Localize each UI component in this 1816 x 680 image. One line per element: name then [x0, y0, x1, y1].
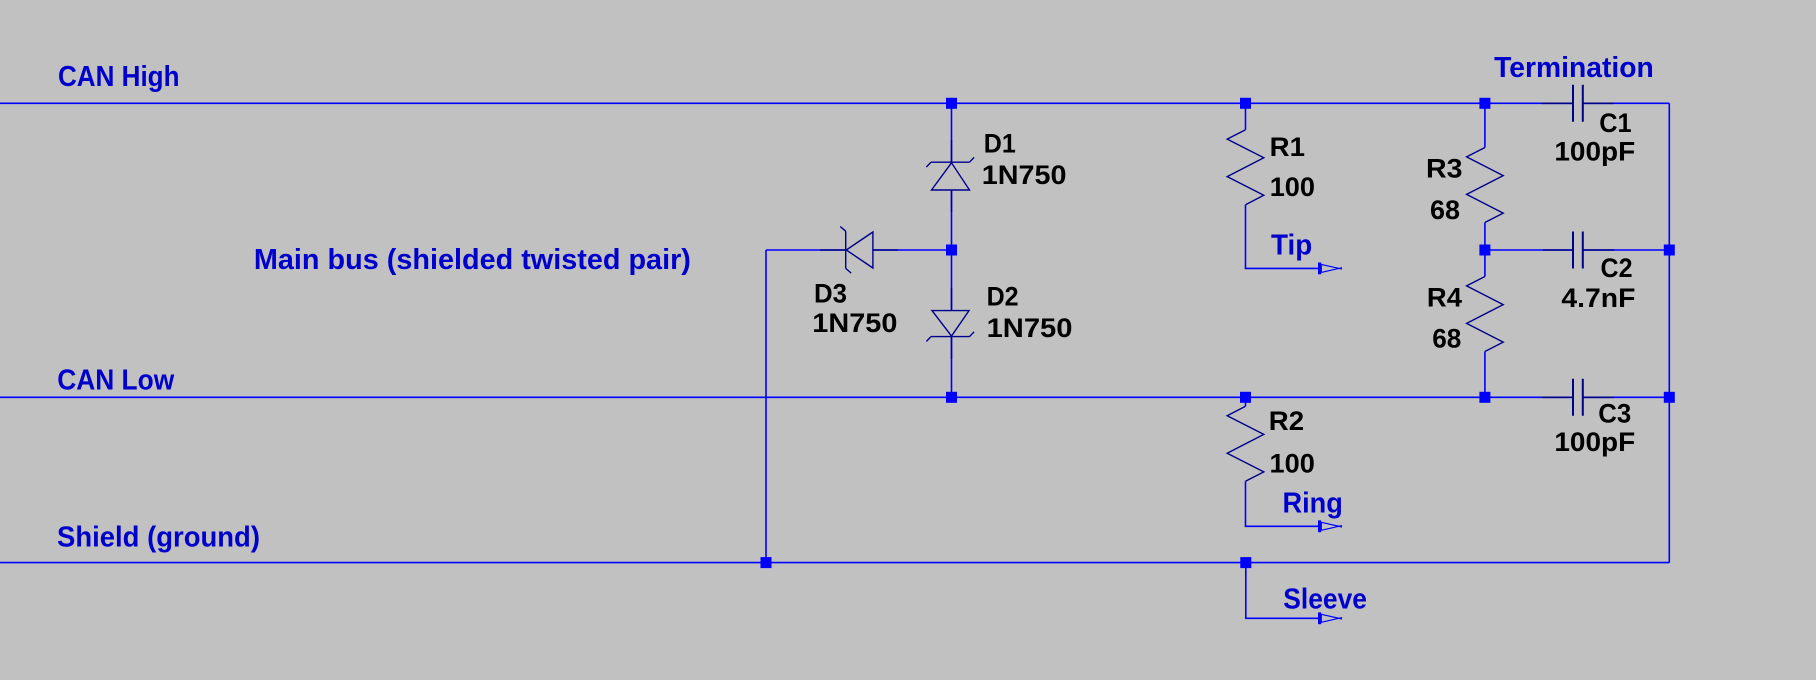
- svg-text:D2: D2: [987, 282, 1019, 312]
- svg-text:100: 100: [1270, 449, 1315, 479]
- svg-text:100pF: 100pF: [1554, 137, 1635, 167]
- wire R3-R4 node to C2: [1485, 249, 1669, 251]
- junction R3 top on CAN High: [1479, 98, 1490, 109]
- junction R2 top on CAN Low: [1240, 392, 1251, 403]
- junction Sleeve tap on Shield: [1240, 557, 1251, 568]
- resistor R3: [1484, 103, 1486, 147]
- capacitor C2 plates: [1573, 232, 1583, 269]
- capacitor C2 pins: [1543, 249, 1614, 251]
- junction R3/R4 node: [1479, 245, 1490, 256]
- svg-text:C2: C2: [1601, 253, 1633, 283]
- wire right vertical rail: [1668, 103, 1670, 562]
- svg-text:68: 68: [1430, 195, 1460, 225]
- svg-text:CAN Low: CAN Low: [57, 365, 175, 397]
- diode D3 (zener 1N750): [820, 227, 898, 274]
- svg-text:R4: R4: [1427, 282, 1462, 312]
- svg-text:Shield (ground): Shield (ground): [57, 522, 260, 554]
- svg-text:68: 68: [1432, 324, 1461, 354]
- wire D3 horizontal leads: [766, 249, 952, 251]
- svg-text:1N750: 1N750: [987, 313, 1073, 343]
- svg-text:D3: D3: [814, 278, 847, 308]
- svg-text:Sleeve: Sleeve: [1283, 584, 1367, 616]
- junction C3 right on rail: [1664, 392, 1675, 403]
- connector Sleeve arrow: [1318, 612, 1342, 624]
- wire Shield rail: [0, 562, 1669, 564]
- resistor R2: [1245, 397, 1247, 406]
- resistor R4: [1484, 250, 1486, 277]
- svg-text:C3: C3: [1598, 398, 1631, 428]
- diode D1 (zener 1N750): [926, 140, 974, 212]
- svg-text:CAN High: CAN High: [58, 61, 180, 93]
- wire D3 anode to shield: [765, 250, 767, 563]
- wire CAN High rail: [0, 102, 1669, 104]
- wire D1-D2 vertical branch: [951, 103, 953, 397]
- svg-text:C1: C1: [1599, 108, 1631, 138]
- svg-text:R3: R3: [1426, 154, 1463, 184]
- svg-text:R1: R1: [1270, 132, 1305, 162]
- wire R1 to Tip connector: [1246, 205, 1319, 269]
- svg-text:1N750: 1N750: [812, 308, 897, 338]
- svg-text:100pF: 100pF: [1554, 427, 1635, 457]
- capacitor C1 plates: [1573, 85, 1583, 122]
- resistor R1: [1245, 103, 1247, 129]
- capacitor C3 pins: [1542, 396, 1614, 398]
- junction C2 right on rail: [1664, 245, 1675, 256]
- junction D2 bottom on CAN Low: [946, 392, 957, 403]
- connector Ring arrow: [1318, 520, 1342, 532]
- wire CAN Low rail: [0, 396, 1669, 398]
- junction D3 wire on Shield: [761, 557, 772, 568]
- junction D1 top on CAN High: [946, 98, 957, 109]
- junction D1/D2/D3 mid node: [946, 245, 957, 256]
- wire Sleeve tap: [1246, 563, 1319, 619]
- capacitor C1 pins: [1542, 102, 1614, 104]
- wire R2 to Ring connector: [1246, 481, 1319, 526]
- diode D2 (zener 1N750): [926, 288, 974, 359]
- svg-text:D1: D1: [984, 129, 1016, 159]
- svg-text:Termination: Termination: [1494, 52, 1654, 84]
- svg-text:Main bus (shielded twisted pai: Main bus (shielded twisted pair): [254, 244, 691, 276]
- junction R4 bottom on CAN Low: [1479, 392, 1490, 403]
- capacitor C3 plates: [1573, 379, 1583, 416]
- connector Tip arrow: [1318, 263, 1342, 275]
- svg-text:R2: R2: [1269, 406, 1304, 436]
- svg-text:100: 100: [1270, 172, 1315, 202]
- svg-text:1N750: 1N750: [982, 160, 1067, 190]
- junction R1 top on CAN High: [1240, 98, 1251, 109]
- svg-text:Ring: Ring: [1283, 488, 1343, 520]
- svg-text:4.7nF: 4.7nF: [1561, 283, 1635, 313]
- svg-text:Tip: Tip: [1271, 230, 1312, 262]
